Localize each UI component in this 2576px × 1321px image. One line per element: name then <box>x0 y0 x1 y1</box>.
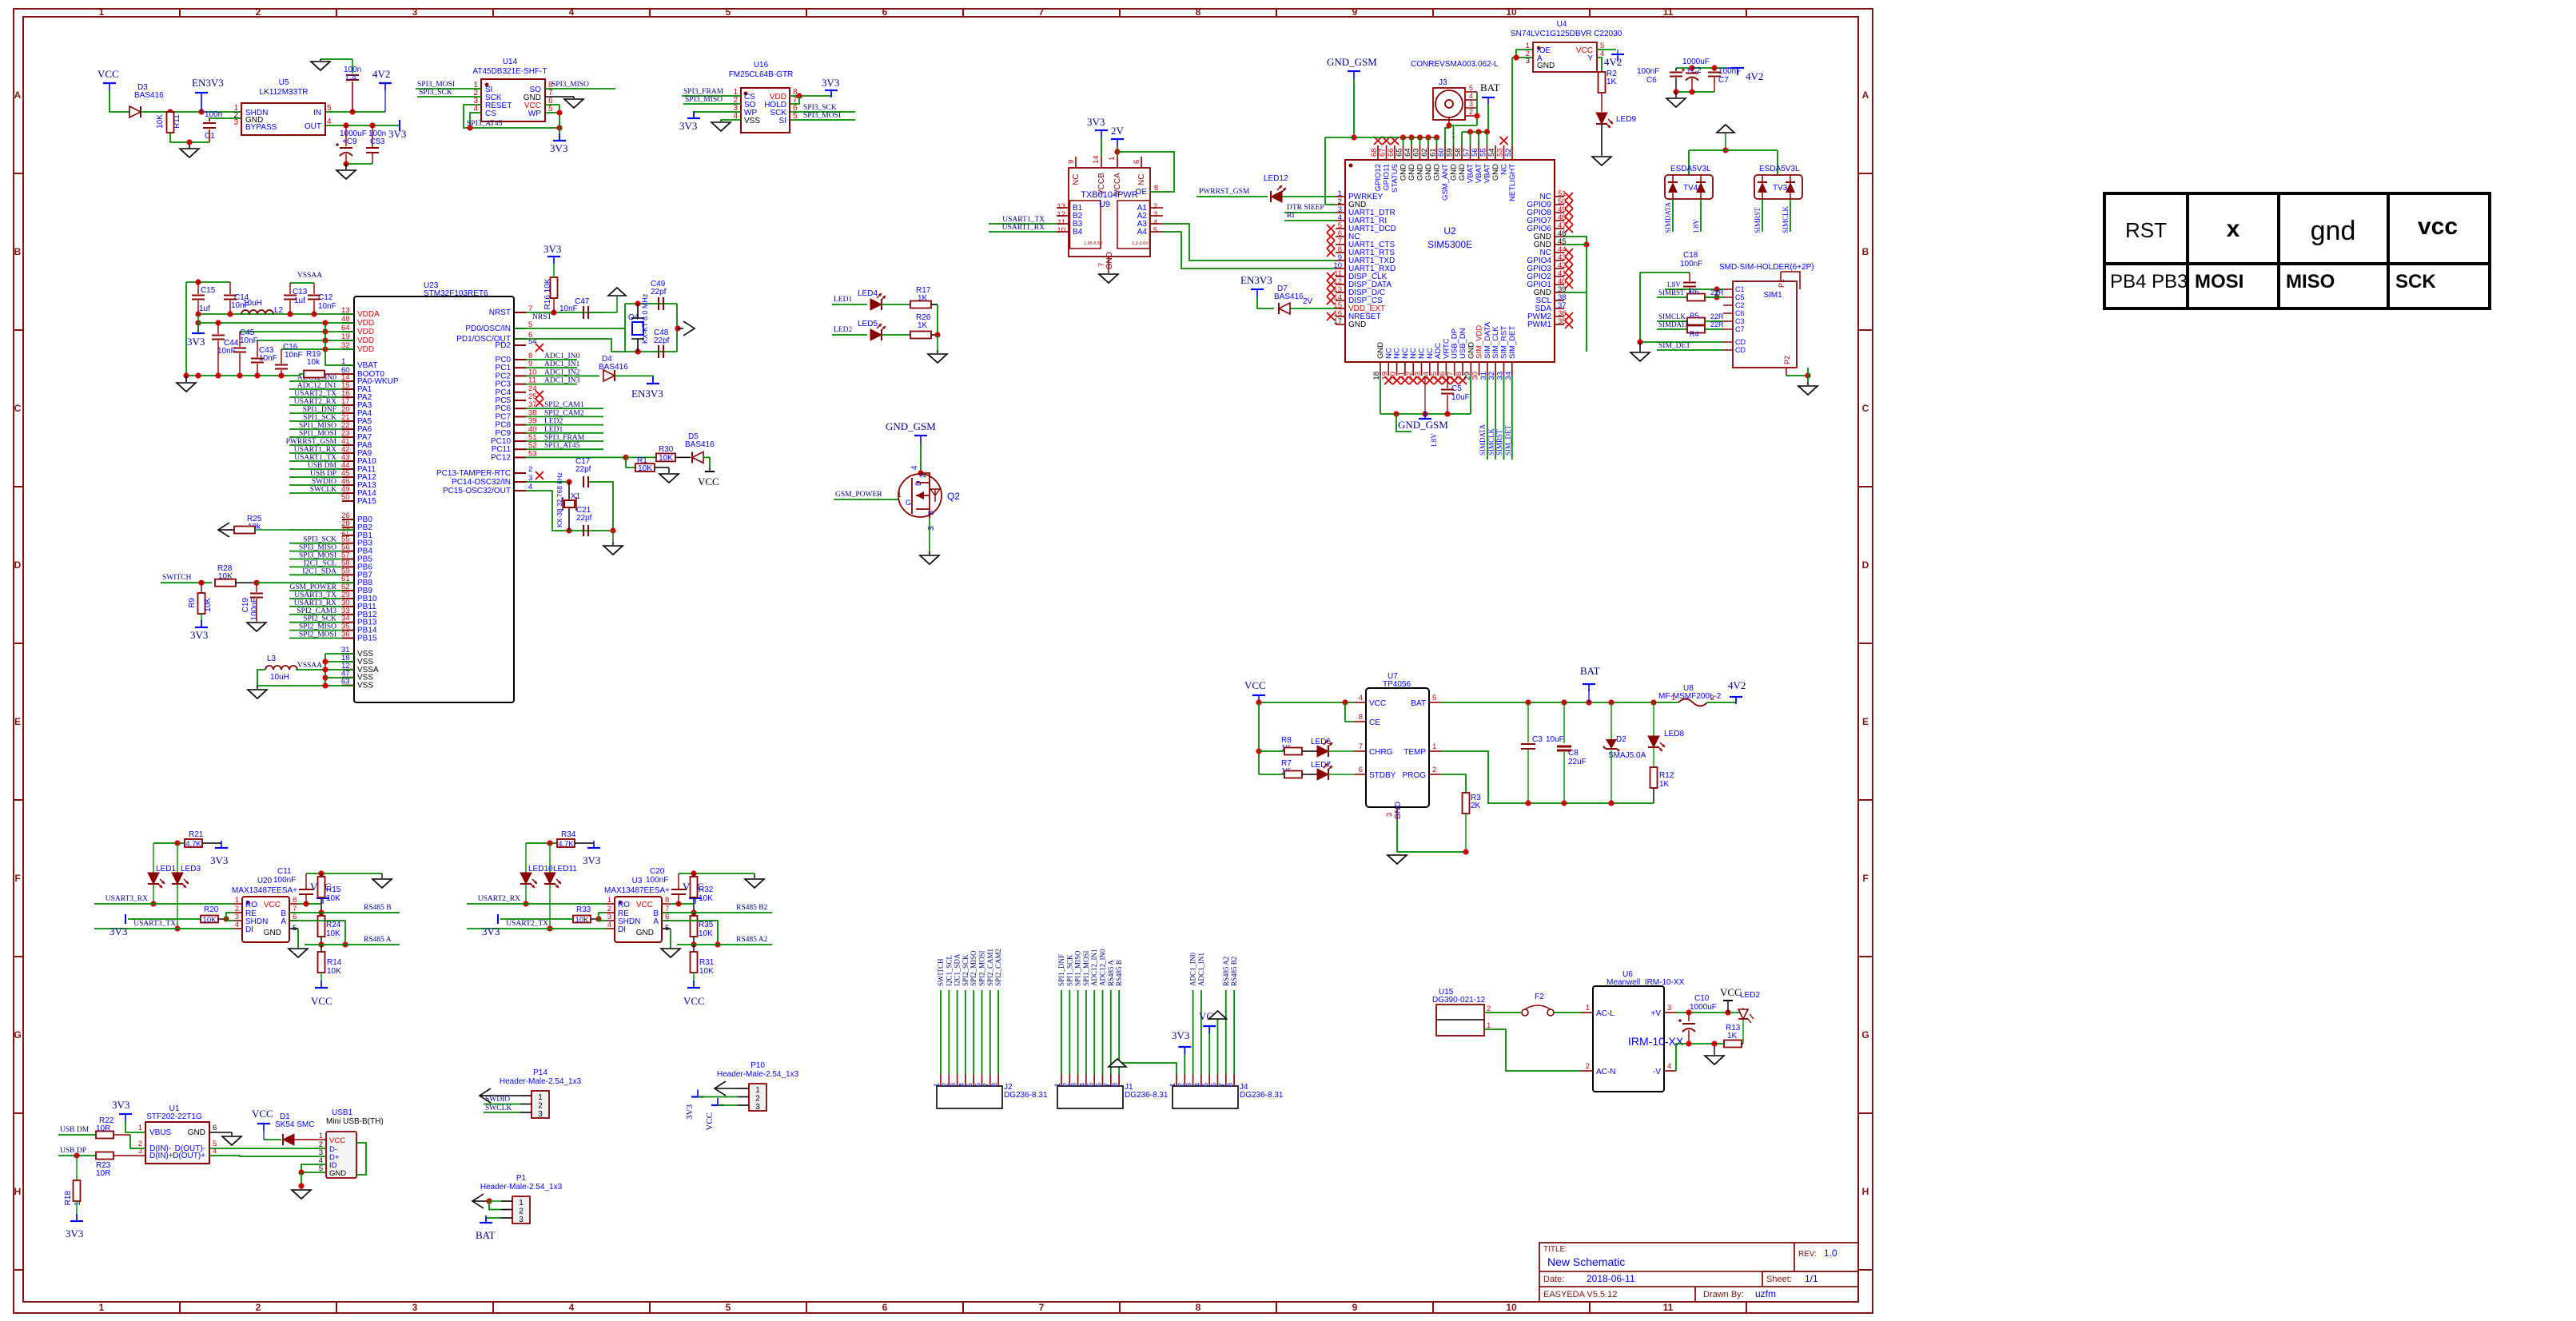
NETLIGHT wire to U4 <box>1511 58 1513 145</box>
svg-text:6: 6 <box>1133 160 1141 164</box>
charger U7 body <box>1366 688 1429 807</box>
svg-text:4V2: 4V2 <box>1604 56 1622 68</box>
svg-text:4: 4 <box>569 6 575 18</box>
svg-text:1.8V: 1.8V <box>1666 281 1681 288</box>
svg-text:PC13-TAMPER-RTC: PC13-TAMPER-RTC <box>436 469 511 478</box>
svg-text:3V3: 3V3 <box>187 336 205 348</box>
J1 pin 2 <box>1069 1074 1070 1086</box>
svg-text:New Schematic: New Schematic <box>1547 1255 1625 1268</box>
svg-text:C1: C1 <box>1735 285 1745 293</box>
svg-text:SPI3_SCK: SPI3_SCK <box>419 89 452 97</box>
svg-text:3: 3 <box>927 526 936 531</box>
svg-text:G: G <box>906 499 911 507</box>
psu module U6 body <box>1593 986 1664 1092</box>
VCC drop to R8 R7 <box>1258 702 1260 774</box>
svg-text:4V2: 4V2 <box>1728 679 1746 691</box>
CE wire <box>1345 702 1354 722</box>
U14 GND wire <box>545 96 574 97</box>
svg-text:BAS416: BAS416 <box>685 440 715 449</box>
svg-text:GND: GND <box>1450 164 1459 181</box>
svg-text:22R: 22R <box>1710 320 1724 328</box>
svg-text:2: 2 <box>755 1095 760 1104</box>
svg-text:8: 8 <box>1196 1302 1201 1313</box>
svg-text:USB DP: USB DP <box>60 1147 86 1155</box>
svg-text:C4: C4 <box>346 74 356 82</box>
svg-text:LED8: LED8 <box>1664 730 1684 738</box>
svg-text:5: 5 <box>1153 226 1157 235</box>
J2 pin 3 <box>957 1074 958 1086</box>
svg-text:USART3_TX: USART3_TX <box>133 920 176 928</box>
connector J4 body <box>1173 1086 1238 1108</box>
svg-text:E: E <box>1862 716 1869 727</box>
3V3 flag on cap rail <box>195 320 201 325</box>
svg-text:GND_GSM: GND_GSM <box>1327 56 1377 68</box>
svg-text:C19: C19 <box>241 598 250 613</box>
svg-text:1/1: 1/1 <box>1805 1273 1818 1284</box>
P10 arrow flag <box>715 1081 726 1096</box>
svg-text:BAT: BAT <box>1580 665 1600 677</box>
svg-text:VSS: VSS <box>357 682 373 690</box>
svg-text:VCCB: VCCB <box>1097 173 1106 195</box>
svg-text:C10: C10 <box>1694 994 1710 1003</box>
svg-text:SPI3_MOSI: SPI3_MOSI <box>803 112 841 120</box>
U6 -V wire <box>1676 1044 1689 1071</box>
wire U5 OUT rail <box>325 125 400 126</box>
svg-text:SIM1: SIM1 <box>1763 291 1782 300</box>
svg-text:6: 6 <box>882 1302 888 1313</box>
svg-text:C7: C7 <box>1718 76 1729 85</box>
U23 PC pins <box>514 359 526 360</box>
svg-text:1: 1 <box>1432 742 1436 751</box>
U15 pin1 wire to AC-N <box>1484 1029 1581 1071</box>
svg-text:10uH: 10uH <box>270 673 289 682</box>
svg-text:DI: DI <box>245 925 253 934</box>
svg-text:3V3: 3V3 <box>822 77 839 89</box>
wire D5 to VCC flag <box>703 457 710 468</box>
ground under R11/C1 <box>189 141 209 143</box>
TEMP wire and bottom rail <box>1441 751 1654 803</box>
svg-text:R34: R34 <box>561 830 576 839</box>
svg-text:3V3: 3V3 <box>543 243 561 255</box>
svg-text:C: C <box>14 403 22 414</box>
svg-text:10nF: 10nF <box>240 336 258 345</box>
svg-text:1.8V: 1.8V <box>1692 219 1700 233</box>
U23 VBAT BOOT0 pins <box>342 364 354 366</box>
U14 RESET CS loop wires <box>464 105 559 128</box>
svg-text:100nF: 100nF <box>1637 67 1659 76</box>
svg-text:OE: OE <box>1136 188 1148 197</box>
svg-text:2: 2 <box>528 465 532 474</box>
svg-text:VDD: VDD <box>357 319 374 328</box>
svg-text:VBAT: VBAT <box>357 361 377 370</box>
svg-text:Y: Y <box>1587 54 1593 63</box>
svg-text:USART3_RX: USART3_RX <box>106 895 148 903</box>
svg-text:10K: 10K <box>699 894 713 903</box>
fram U16 body <box>741 88 790 133</box>
U9 A3 A4 wires to U2 UART <box>1163 224 1336 261</box>
svg-text:ADC1_IN1: ADC1_IN1 <box>544 360 580 368</box>
svg-text:RS485 B2: RS485 B2 <box>1230 957 1238 986</box>
svg-text:NRST: NRST <box>532 313 551 321</box>
VSS joining wires <box>325 654 354 686</box>
svg-text:CS: CS <box>485 109 496 118</box>
svg-text:PD0/OSC/IN: PD0/OSC/IN <box>465 324 511 333</box>
svg-text:U4: U4 <box>1557 20 1567 29</box>
U7 GND wire rail <box>1396 819 1398 852</box>
svg-text:1: 1 <box>897 491 902 499</box>
svg-text:PC15-OSC32/OUT: PC15-OSC32/OUT <box>443 487 511 495</box>
svg-text:SWDIO: SWDIO <box>485 1096 510 1104</box>
svg-text:SIM_DET: SIM_DET <box>1508 326 1517 359</box>
svg-text:MAX13487EESA+: MAX13487EESA+ <box>604 886 670 895</box>
svg-text:63: 63 <box>341 678 350 686</box>
svg-text:2: 2 <box>919 473 928 478</box>
svg-text:3V3: 3V3 <box>112 1099 129 1111</box>
svg-text:C11: C11 <box>277 867 292 876</box>
transistor Q2 <box>898 474 942 517</box>
svg-text:10uF: 10uF <box>1451 393 1470 402</box>
svg-text:Header-Male-2.54_1x3: Header-Male-2.54_1x3 <box>480 1183 563 1192</box>
svg-text:LED3: LED3 <box>181 865 201 873</box>
svg-text:R35: R35 <box>699 921 714 929</box>
svg-text:LED5: LED5 <box>858 320 878 328</box>
svg-text:7: 7 <box>1039 6 1045 18</box>
svg-text:22uF: 22uF <box>1568 758 1587 766</box>
CD gnd wire <box>1640 341 1723 343</box>
svg-text:REV:: REV: <box>1798 1250 1817 1259</box>
svg-text:I2C1_SDA: I2C1_SDA <box>954 953 962 986</box>
svg-text:VCC: VCC <box>1720 986 1742 998</box>
svg-text:SPI3_FRAM: SPI3_FRAM <box>544 434 585 442</box>
svg-text:B: B <box>14 246 22 257</box>
svg-text:SPI1_MOSI: SPI1_MOSI <box>1082 950 1090 986</box>
svg-text:10K: 10K <box>659 454 673 463</box>
U2 bottom SIM wires <box>1487 376 1488 460</box>
svg-text:ADC1_IN1: ADC1_IN1 <box>1197 953 1205 986</box>
svg-text:C15: C15 <box>201 286 216 295</box>
svg-text:+C9: +C9 <box>342 137 357 146</box>
crystal loop O4/X1 8MHz <box>514 328 625 329</box>
svg-text:USB1: USB1 <box>332 1108 353 1117</box>
svg-text:3: 3 <box>1469 100 1473 108</box>
svg-text:2V: 2V <box>1303 297 1313 306</box>
VDD rail 48 <box>198 322 354 324</box>
svg-text:U20: U20 <box>257 877 273 885</box>
svg-text:MAX13487EESA+: MAX13487EESA+ <box>232 886 297 895</box>
svg-text:4V2: 4V2 <box>372 68 390 80</box>
svg-text:MOSI: MOSI <box>2195 271 2244 292</box>
frame column numbers <box>99 6 1674 1313</box>
U16 WP to 3V3 <box>694 112 741 118</box>
svg-text:TP4056: TP4056 <box>1383 680 1411 689</box>
svg-text:11: 11 <box>1663 6 1674 18</box>
mcu U23 body <box>354 296 514 702</box>
svg-text:10K: 10K <box>326 894 340 903</box>
svg-text:NETLIGHT: NETLIGHT <box>1508 164 1517 201</box>
svg-text:VBAT: VBAT <box>1475 164 1483 183</box>
svg-text:P1: P1 <box>516 1174 527 1183</box>
svg-text:1: 1 <box>99 1302 105 1313</box>
VBAT vertical wire <box>325 323 354 365</box>
svg-text:WP: WP <box>528 109 541 118</box>
svg-text:EN3V3: EN3V3 <box>631 388 663 400</box>
svg-text:LED4: LED4 <box>858 289 878 298</box>
svg-text:NC: NC <box>1500 164 1509 175</box>
svg-text:Sheet:: Sheet: <box>1766 1275 1792 1284</box>
svg-text:1.65-5.5V: 1.65-5.5V <box>1084 241 1103 246</box>
svg-text:VDD: VDD <box>357 328 374 336</box>
svg-text:RS485 A: RS485 A <box>364 936 392 944</box>
svg-text:GND_GSM: GND_GSM <box>886 420 936 432</box>
svg-text:VCC: VCC <box>98 68 119 80</box>
svg-text:10K: 10K <box>326 929 340 938</box>
svg-text:10nF: 10nF <box>285 351 303 360</box>
svg-text:2: 2 <box>941 1083 949 1087</box>
svg-text:6: 6 <box>974 1083 982 1087</box>
svg-text:100nF: 100nF <box>1680 260 1702 269</box>
svg-text:22pf: 22pf <box>651 288 667 296</box>
svg-text:GSM_POWER: GSM_POWER <box>835 491 882 499</box>
svg-text:GND: GND <box>636 929 654 937</box>
svg-text:R20: R20 <box>204 905 219 914</box>
svg-text:2: 2 <box>1586 1062 1590 1071</box>
svg-text:3V3: 3V3 <box>210 854 228 866</box>
svg-text:VDDA: VDDA <box>357 310 380 319</box>
capacitor C9 polarized <box>345 125 347 146</box>
U6 +V rail <box>1676 1012 1743 1013</box>
wire pin2 to C1 <box>209 117 241 119</box>
svg-text:LED9: LED9 <box>1616 115 1636 124</box>
svg-text:VCC: VCC <box>705 1112 715 1131</box>
svg-text:F2: F2 <box>1535 993 1544 1001</box>
svg-text:D2: D2 <box>1616 735 1626 744</box>
MCU decoupling caps rail top <box>186 281 230 283</box>
svg-text:SCK: SCK <box>2395 271 2436 292</box>
svg-text:H: H <box>14 1186 22 1197</box>
svg-text:PROG: PROG <box>1403 771 1427 780</box>
svg-text:VCCA: VCCA <box>1113 173 1122 195</box>
svg-text:2V: 2V <box>1111 125 1125 137</box>
svg-text:10R: 10R <box>96 1169 110 1178</box>
svg-text:TXB0104PWR: TXB0104PWR <box>1081 190 1138 200</box>
svg-text:7: 7 <box>1218 1083 1226 1087</box>
svg-text:BAS416: BAS416 <box>134 91 164 100</box>
svg-text:100nF: 100nF <box>273 876 296 885</box>
svg-text:1.2-3.6V: 1.2-3.6V <box>1132 241 1149 246</box>
svg-text:R6: R6 <box>1690 288 1699 296</box>
svg-text:GND: GND <box>1424 164 1433 181</box>
svg-text:SIMCLK: SIMCLK <box>1782 205 1790 233</box>
svg-text:EN3V3: EN3V3 <box>192 77 224 89</box>
sim connector SIM1 body <box>1733 281 1797 368</box>
svg-text:SPI1_DNF: SPI1_DNF <box>1057 954 1065 986</box>
svg-text:SPI3_AT45: SPI3_AT45 <box>544 442 580 450</box>
svg-text:VCC: VCC <box>329 1136 345 1145</box>
svg-text:10K: 10K <box>327 967 341 976</box>
svg-text:RS485 A2: RS485 A2 <box>736 936 768 944</box>
svg-text:1: 1 <box>1169 1083 1177 1087</box>
svg-text:4: 4 <box>1359 694 1363 702</box>
svg-text:CD: CD <box>1735 346 1746 354</box>
svg-text:3V3: 3V3 <box>190 629 208 641</box>
svg-text:1K: 1K <box>1727 1032 1738 1040</box>
svg-text:Header-Male-2.54_1x3: Header-Male-2.54_1x3 <box>717 1070 799 1079</box>
svg-text:1: 1 <box>1053 1083 1061 1087</box>
power flag 4V2 at fuse <box>1707 702 1736 703</box>
svg-text:BAT: BAT <box>1480 82 1500 94</box>
svg-text:C2: C2 <box>1735 301 1745 309</box>
svg-text:VCC: VCC <box>636 901 653 909</box>
svg-text:CHRG: CHRG <box>1369 748 1393 757</box>
svg-text:R30: R30 <box>659 445 674 454</box>
wire R11 to gnd rail <box>170 133 189 142</box>
header P1 body <box>512 1196 530 1224</box>
U23 PB pins <box>342 519 354 520</box>
svg-text:F: F <box>1862 873 1868 884</box>
svg-text:DI: DI <box>618 925 626 934</box>
svg-text:GND: GND <box>1399 164 1408 181</box>
svg-text:SPI2_CAM1: SPI2_CAM1 <box>986 949 994 986</box>
svg-text:53: 53 <box>528 449 537 458</box>
svg-text:D(OUT)+: D(OUT)+ <box>173 1152 205 1160</box>
USB1 D-/D+ wires <box>209 1148 326 1149</box>
svg-text:3: 3 <box>1526 57 1530 66</box>
svg-text:10: 10 <box>1506 1302 1517 1313</box>
svg-text:x: x <box>2227 216 2240 242</box>
gnd arrow above ESD <box>1717 125 1734 133</box>
svg-text:G: G <box>14 1029 21 1040</box>
flash memory U14 body <box>481 79 545 121</box>
svg-text:10nF: 10nF <box>318 302 336 311</box>
U4 Y to R2 <box>1597 58 1602 72</box>
svg-text:PWM1: PWM1 <box>1527 320 1551 329</box>
ground above C4 <box>321 58 352 60</box>
svg-text:10: 10 <box>1057 226 1065 235</box>
J2 pin 6 <box>981 1074 983 1086</box>
svg-text:6: 6 <box>1095 1083 1103 1087</box>
svg-text:R24: R24 <box>326 921 341 929</box>
J2 pin 4 <box>965 1074 966 1086</box>
svg-text:4: 4 <box>910 465 919 470</box>
svg-text:4: 4 <box>1078 1083 1086 1087</box>
svg-text:7: 7 <box>982 1083 990 1087</box>
svg-text:GND: GND <box>1416 164 1425 181</box>
svg-text:SMAJ5.0A: SMAJ5.0A <box>1608 751 1646 760</box>
svg-text:LED6: LED6 <box>1311 738 1331 746</box>
frame row letters <box>14 90 1869 1197</box>
svg-text:B: B <box>1862 246 1869 257</box>
svg-text:ADC1_IN0: ADC1_IN0 <box>544 352 580 360</box>
svg-text:L2: L2 <box>274 306 284 315</box>
svg-text:C20: C20 <box>650 867 665 876</box>
svg-text:4.7K: 4.7K <box>558 840 574 849</box>
svg-text:USART2_TX: USART2_TX <box>506 920 548 928</box>
svg-text:SPI1_MISO: SPI1_MISO <box>1074 950 1082 986</box>
svg-text:A: A <box>653 917 659 926</box>
svg-text:SPI3_SCK: SPI3_SCK <box>803 104 837 112</box>
svg-text:36: 36 <box>341 631 350 639</box>
svg-text:GND: GND <box>188 1128 205 1137</box>
svg-text:R9: R9 <box>188 598 197 608</box>
up-arrow gnd for C47 <box>616 296 618 312</box>
svg-text:2018-06-11: 2018-06-11 <box>1587 1273 1635 1284</box>
svg-text:SPI3_FRAM: SPI3_FRAM <box>683 88 724 96</box>
svg-text:R33: R33 <box>576 905 591 914</box>
svg-text:Q2: Q2 <box>947 491 960 502</box>
svg-text:1: 1 <box>1108 157 1117 161</box>
svg-text:U14: U14 <box>503 58 518 66</box>
U23 NRST pin <box>514 312 526 313</box>
svg-text:GND: GND <box>1458 164 1467 181</box>
svg-text:Mini USB-B(TH): Mini USB-B(TH) <box>326 1117 384 1126</box>
svg-text:22pf: 22pf <box>576 514 592 523</box>
wire VCC to D3 <box>109 90 129 112</box>
svg-text:USART1_RX: USART1_RX <box>1002 224 1045 232</box>
svg-text:2: 2 <box>519 1208 524 1216</box>
crystal ground <box>612 531 614 542</box>
power flag 3V3 under U14 <box>553 140 566 141</box>
svg-text:KX-KT 8.0 MHz: KX-KT 8.0 MHz <box>641 293 649 344</box>
svg-text:SPI3_MOSI: SPI3_MOSI <box>417 81 455 89</box>
U16 VSS to gnd <box>721 120 741 121</box>
svg-text:DTR SIEEP: DTR SIEEP <box>1287 204 1324 212</box>
3V3 under R18 <box>70 1220 83 1222</box>
svg-text:IN: IN <box>313 109 321 117</box>
svg-text:1: 1 <box>755 1086 760 1095</box>
top rail to gnd <box>679 873 754 874</box>
svg-text:GND: GND <box>1407 164 1416 181</box>
svg-text:BAT: BAT <box>1411 699 1426 708</box>
svg-text:3V3: 3V3 <box>66 1227 83 1239</box>
svg-text:ESDA5V3L: ESDA5V3L <box>1759 165 1800 173</box>
J4 uparrow gnd <box>1217 1020 1219 1074</box>
P1 pin2 wire <box>489 1201 501 1210</box>
ESD rail <box>1689 149 1778 151</box>
svg-text:DG390-021-12: DG390-021-12 <box>1432 996 1486 1005</box>
P14 arrow flag <box>480 1088 491 1103</box>
U2 bottom GND rail <box>1380 376 1381 414</box>
svg-text:DG236-8.31: DG236-8.31 <box>1125 1091 1169 1100</box>
svg-text:Drawn By:: Drawn By: <box>1703 1290 1744 1299</box>
U23 PA pins <box>342 380 354 382</box>
svg-text:3V3: 3V3 <box>1087 116 1105 128</box>
svg-text:GSM_ANT: GSM_ANT <box>1441 164 1450 201</box>
svg-text:RS485 B: RS485 B <box>1115 960 1123 986</box>
svg-text:LED2: LED2 <box>1740 991 1760 1000</box>
svg-text:I2C1_SCL: I2C1_SCL <box>945 955 953 986</box>
svg-text:1K: 1K <box>1659 780 1670 789</box>
svg-text:5: 5 <box>1432 694 1436 702</box>
svg-text:PC14-OSC32/IN: PC14-OSC32/IN <box>452 478 511 487</box>
svg-text:SPI2_MISO: SPI2_MISO <box>969 950 977 986</box>
svg-text:3: 3 <box>519 1216 524 1224</box>
svg-text:uzfm: uzfm <box>1755 1288 1776 1299</box>
svg-text:H: H <box>1862 1186 1869 1197</box>
svg-text:SWITCH: SWITCH <box>937 958 945 986</box>
J4 pin 6 <box>1217 1074 1219 1086</box>
svg-text:vcc: vcc <box>2418 213 2458 240</box>
svg-text:LED1: LED1 <box>156 865 176 873</box>
svg-text:P10: P10 <box>751 1061 765 1070</box>
J1 pin 8 <box>1118 1074 1120 1086</box>
svg-text:22pf: 22pf <box>654 336 670 345</box>
svg-text:VCC: VCC <box>698 475 719 487</box>
sheet border frame <box>14 9 1873 1313</box>
U23 VSS pins <box>342 653 354 655</box>
svg-text:RS485 A2: RS485 A2 <box>1222 957 1230 986</box>
svg-text:ADC1_IN3: ADC1_IN3 <box>544 377 580 385</box>
svg-text:G: G <box>1861 1029 1869 1040</box>
